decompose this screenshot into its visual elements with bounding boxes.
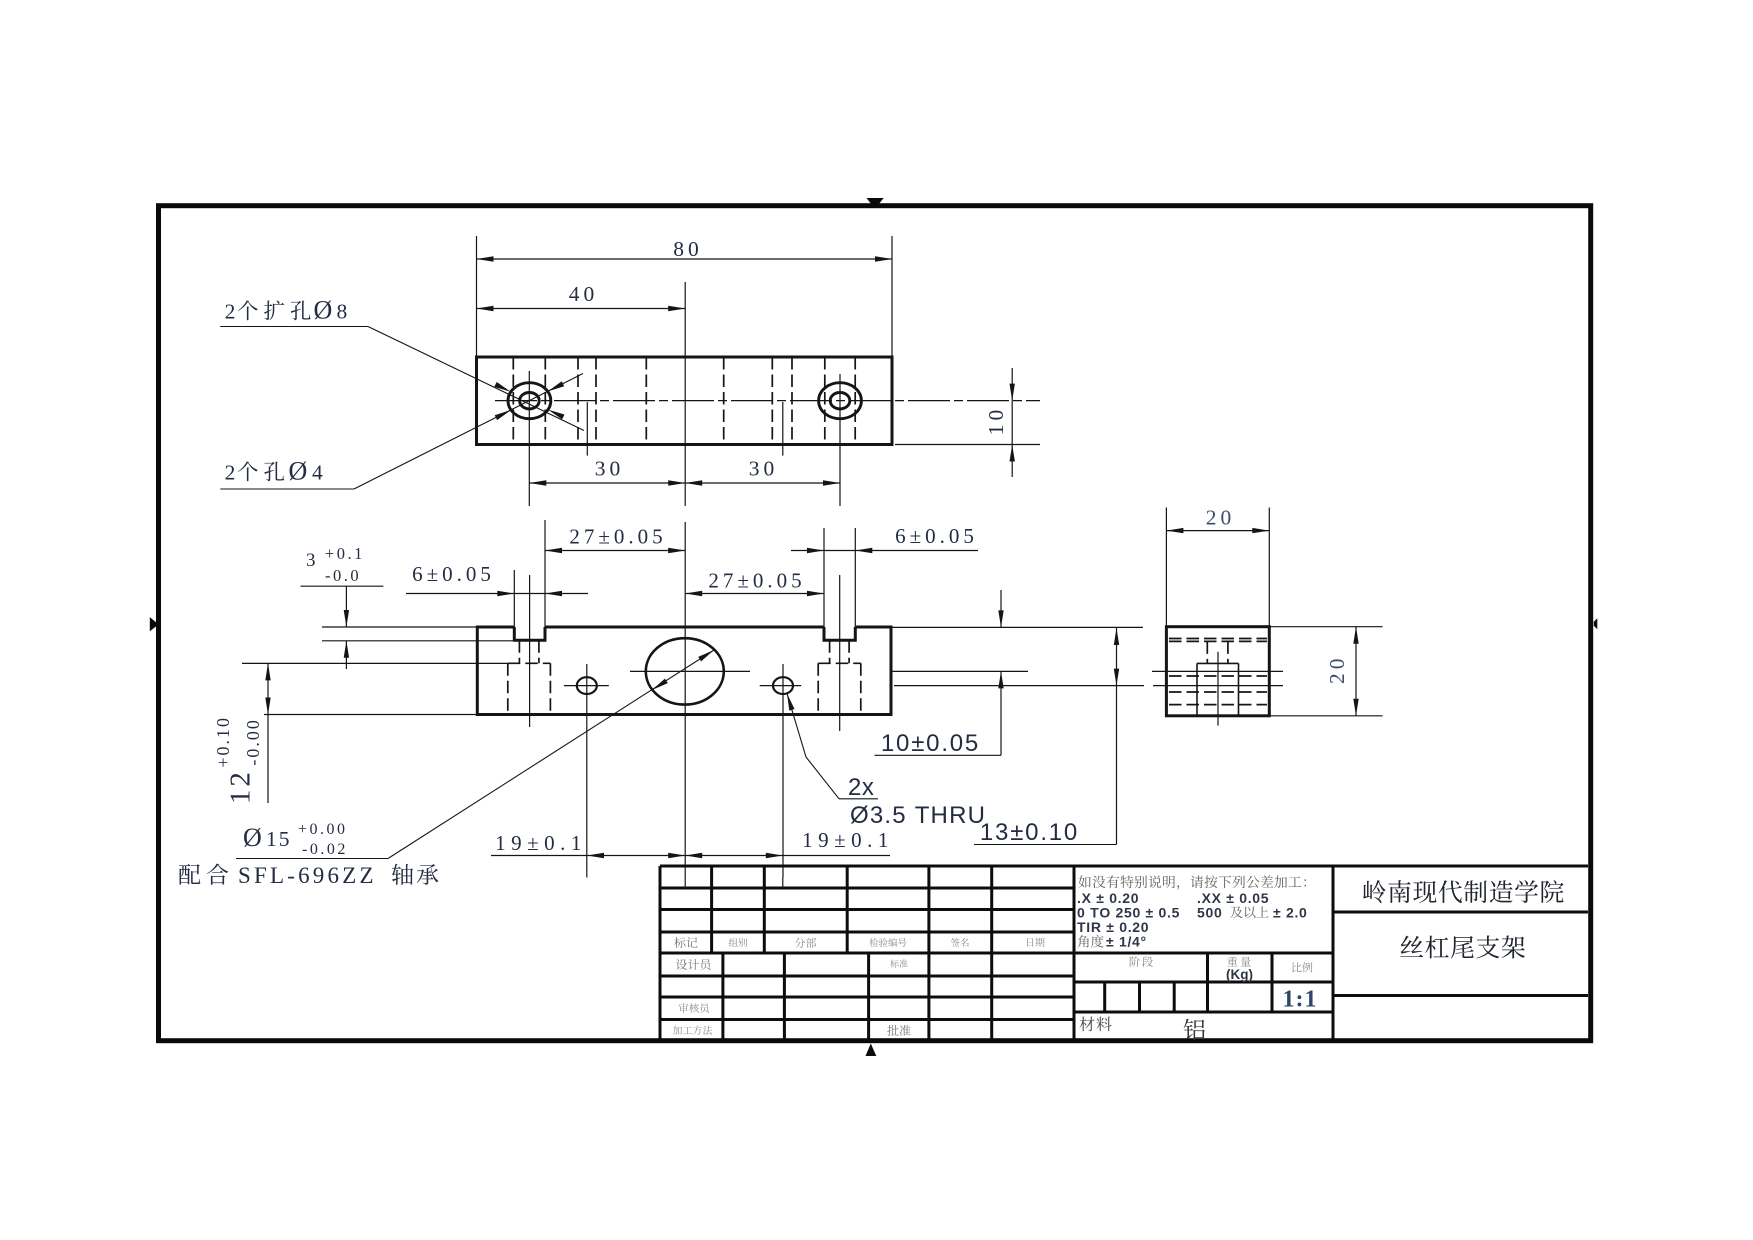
company name 岭南现代制造学院: [1363, 880, 1563, 903]
top view: right hole Ø4: [830, 393, 850, 409]
front view extension: small hole centerline extended right for 13-dim: [894, 685, 1144, 687]
top view: right small hole centerline stub: [782, 402, 784, 456]
grid label 标记: [674, 937, 697, 948]
svg-text:+0.1: +0.1: [325, 544, 365, 563]
side view: small hole bottom hidden edge: [1169, 691, 1267, 693]
centering mark bottom: [866, 1044, 877, 1057]
dimension 27 lower: line and text: [685, 593, 824, 595]
front view: part outline with top slots: [477, 627, 891, 715]
label 2x counterbore Ø8: leader line: [220, 326, 368, 328]
front view: left hole Ø4 hidden edges: [518, 640, 520, 663]
grid label 加工方法: [673, 1026, 712, 1035]
front view extension: counterbore top extended left for 12-dim: [242, 662, 508, 664]
front view: right hole Ø4 hidden edges: [829, 640, 831, 663]
svg-text:± 2.0: ± 2.0: [1273, 905, 1308, 921]
svg-text:± 1/4°: ± 1/4°: [1106, 934, 1147, 950]
label 2x hole Ø4: leader line: [220, 488, 354, 490]
svg-text:10: 10: [984, 406, 1008, 436]
tolerance note line 5: [1078, 935, 1104, 948]
svg-text:80: 80: [673, 237, 703, 261]
dimension 10: dimension line with outside arrows: [1011, 368, 1013, 477]
title block: left edge: [659, 866, 662, 1040]
dimension 12: rotated text: [213, 716, 263, 804]
grid label 签名: [951, 938, 969, 947]
svg-text:12: 12: [225, 769, 257, 804]
svg-text:Ø: Ø: [243, 823, 262, 852]
title block right: row lines: [1074, 952, 1333, 955]
front view: left mounting hole Ø3.5: [577, 677, 597, 694]
front view extension lines above slots: [513, 570, 515, 627]
svg-text:-0.02: -0.02: [302, 841, 348, 858]
svg-text:2x: 2x: [848, 774, 874, 801]
title block: divider grid/tolerance: [1073, 866, 1076, 1040]
grid label 分部: [795, 938, 816, 948]
side view: bore top hidden edge: [1169, 638, 1267, 640]
grid label 日期: [1027, 938, 1045, 947]
dimension 40: dimension line: [477, 308, 686, 310]
dimension 3: underline and arrows: [301, 585, 384, 587]
side view: slot bottom hidden edge: [1169, 640, 1267, 642]
front view: center bore horizontal centerline: [630, 670, 750, 672]
svg-text:6±0.05: 6±0.05: [895, 524, 978, 548]
grid label 设计员: [676, 959, 711, 970]
dimension 30 right: dimension line: [685, 482, 840, 484]
header label 重量(Kg): [1227, 957, 1250, 967]
svg-text:-0.0: -0.0: [325, 566, 361, 585]
svg-text:2: 2: [225, 461, 236, 485]
dimension 10: extension line bottom: [895, 444, 1040, 446]
dimension 13±0.10: line, arrows, text: [1116, 628, 1118, 845]
front view: part center vertical centerline: [684, 522, 686, 878]
svg-text:30: 30: [595, 457, 625, 481]
dimension 10±0.05: line, arrows, text: [1000, 590, 1002, 627]
front view extension: top edge extended right: [891, 626, 1143, 628]
front view extension: bore centerline extended right for 10-dim: [891, 670, 1028, 672]
grid label 标准: [890, 959, 908, 967]
top view: part center vertical centerline: [684, 282, 686, 506]
front view: right counterbore hidden outline: [818, 662, 861, 664]
dimension 80: dimension line: [477, 258, 893, 260]
front view: left counterbore hidden outline: [508, 662, 551, 664]
grid label 审核员: [679, 1003, 709, 1013]
header label 比例: [1292, 962, 1312, 972]
front view extension: top edge extended left for 3-dim: [322, 626, 477, 628]
grid label 批准: [887, 1025, 910, 1036]
svg-text:27±0.05: 27±0.05: [708, 569, 805, 593]
svg-text:40: 40: [569, 282, 599, 306]
svg-text:3: 3: [306, 550, 316, 571]
title block name box: row lines: [1333, 911, 1588, 914]
svg-text:19±0.1: 19±0.1: [802, 828, 894, 852]
front view: left slot centerline: [529, 575, 531, 727]
front view: right small hole horizontal centerline: [760, 685, 802, 687]
side view: Ø4 hole hidden edges: [1206, 641, 1208, 663]
svg-text:Ø: Ø: [289, 457, 308, 486]
dimension 27 upper: line and text: [545, 550, 685, 552]
svg-text:13±0.10: 13±0.10: [980, 819, 1079, 846]
drawing sheet border frame: [159, 206, 1591, 1041]
title block: outer top edge: [660, 865, 1588, 868]
label 材料: [1079, 1017, 1111, 1032]
svg-text:(Kg): (Kg): [1226, 967, 1253, 982]
svg-text:8: 8: [337, 300, 348, 324]
centering mark left: [150, 617, 157, 631]
svg-text:30: 30: [749, 457, 779, 481]
front view: right slot: [824, 627, 855, 640]
top view: left hole Ø4: [520, 393, 540, 409]
header label 阶段: [1130, 956, 1153, 967]
title block grid: upper verticals: [710, 866, 713, 953]
top view: left slot hidden edges: [512, 357, 514, 445]
front view: top edge between slots: [545, 626, 824, 629]
centering mark right: [1594, 618, 1598, 629]
centering mark top: [867, 198, 884, 206]
front view: right slot centerline: [839, 575, 841, 731]
front view: left small hole horizontal centerline: [564, 685, 609, 687]
top view: right slot hidden edges: [824, 357, 826, 445]
svg-text:Ø3.5 THRU: Ø3.5 THRU: [850, 802, 986, 829]
svg-text:-0.00: -0.00: [243, 718, 263, 766]
top view: left small hole centerline stub: [586, 402, 588, 456]
svg-text:+0.10: +0.10: [213, 716, 233, 768]
svg-text:SFL-696ZZ: SFL-696ZZ: [238, 863, 377, 888]
svg-text:10±0.05: 10±0.05: [881, 730, 980, 757]
svg-text:2: 2: [225, 300, 236, 324]
side view: small hole top hidden edge: [1169, 675, 1267, 677]
dimension 80: extension lines: [476, 236, 478, 357]
material value 铝: [1184, 1019, 1205, 1040]
svg-text:4: 4: [312, 461, 323, 485]
svg-text:500: 500: [1197, 905, 1222, 921]
top view: left small hole hidden edges: [577, 357, 579, 445]
dimension 19 left: line and text: [491, 855, 685, 857]
front view: left slot: [514, 627, 545, 640]
front view: left small hole vertical centerline: [586, 664, 588, 878]
side view: bore horizontal centerline: [1152, 670, 1283, 672]
dimension 6 lower left: line and text: [406, 593, 588, 595]
top view: right counterbore hole Ø8: [819, 383, 862, 419]
top view: right hole vertical centerline: [839, 374, 841, 506]
title block grid: horizontal lines: [660, 887, 1074, 890]
side view: bore bottom hidden edge: [1169, 704, 1267, 706]
extension lines crossing into title block: [684, 878, 686, 889]
title block grid: lower verticals: [721, 953, 724, 1040]
svg-text:20: 20: [1206, 506, 1236, 530]
side view: vertical centerline: [1217, 652, 1219, 726]
label 2x Ø3.5: leader: [787, 694, 839, 799]
front view extension: slot bottom extended left for 3-dim: [322, 640, 514, 642]
title block: divider tolerance/name: [1332, 866, 1335, 1040]
label bearing fit note: [179, 864, 228, 885]
top view: right small hole hidden edges: [771, 357, 773, 445]
front view extension: bottom edge extended left for 12-dim: [264, 714, 477, 716]
svg-text:Ø: Ø: [314, 296, 333, 325]
dimension 12 +0.10/-0.00: dimension line: [267, 663, 269, 803]
svg-text:1:1: 1:1: [1283, 987, 1318, 1013]
top view: left hole vertical centerline: [528, 371, 530, 506]
svg-text:20: 20: [1325, 655, 1349, 685]
label Ø15: underline and leader: [236, 858, 388, 860]
grid label 组别: [729, 938, 747, 947]
top view: horizontal centerline through holes: [495, 400, 1040, 402]
part name 丝杠尾支架: [1400, 936, 1525, 959]
svg-text:27±0.05: 27±0.05: [569, 525, 666, 549]
svg-text:+0.00: +0.00: [298, 821, 348, 838]
svg-text:19±0.1: 19±0.1: [495, 831, 587, 855]
front view: right small hole vertical centerline: [782, 664, 784, 878]
dimension 6 upper right: line and text: [791, 550, 978, 552]
dimension 19 right: line and text: [685, 855, 890, 857]
side view dimension 20 top: extensions, line, text: [1165, 508, 1167, 627]
dimension 30 left: dimension line: [529, 482, 685, 484]
svg-text:6±0.05: 6±0.05: [412, 562, 495, 586]
side view: counterbore profile: [1197, 662, 1239, 664]
top view: center bore hidden edges: [645, 357, 647, 445]
side view dimension 20 right: extensions, line, text: [1269, 626, 1382, 628]
title block right: small cell verticals: [1103, 982, 1106, 1012]
top view: part outline 80x17: [477, 357, 893, 445]
top view: left counterbore hole Ø8: [508, 383, 551, 419]
front view: center bore Ø15: [646, 638, 724, 704]
dimension 10: rotated text: [984, 406, 1008, 436]
grid label 检验编号: [869, 938, 906, 947]
tolerance note line 1: [1078, 875, 1306, 889]
side view: small holes horizontal centerline: [1153, 685, 1283, 687]
title block right: header verticals: [1206, 953, 1209, 1012]
svg-text:15: 15: [266, 827, 292, 851]
side view: part outline 20x20: [1166, 627, 1269, 716]
front view: right mounting hole Ø3.5: [773, 677, 793, 694]
